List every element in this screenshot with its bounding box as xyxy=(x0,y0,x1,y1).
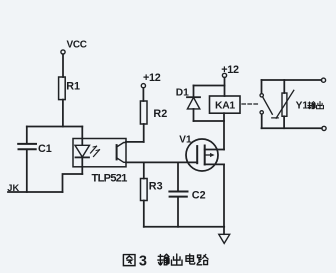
wire contact top lead xyxy=(261,80,263,94)
wire output bottom xyxy=(262,127,322,129)
wire C1 top lead xyxy=(26,127,28,144)
wire D1 top branch xyxy=(194,85,225,87)
wire emitter to gate xyxy=(126,161,197,163)
label 输出 (output) small xyxy=(308,102,315,109)
wire collector to R2 xyxy=(126,141,144,143)
svg-text:Y1: Y1 xyxy=(296,100,309,111)
wire step up xyxy=(63,174,83,192)
wire JK horizontal xyxy=(8,191,63,193)
wire R3 top lead xyxy=(143,162,145,178)
svg-text:TLP521: TLP521 xyxy=(92,173,128,185)
capacitor C1 xyxy=(18,144,36,149)
transistor V1 MOSFET xyxy=(186,139,218,171)
wire bottom horizontal xyxy=(144,226,224,228)
wire top-left horizontal xyxy=(27,126,83,128)
capacitor C2 xyxy=(169,192,187,197)
svg-text:C1: C1 xyxy=(38,143,52,155)
wire C2 bottom lead xyxy=(177,198,179,227)
wire +12 to R2 xyxy=(142,88,144,101)
wire source down xyxy=(223,164,225,234)
VCC terminal xyxy=(61,50,65,54)
wire C2 top lead xyxy=(177,162,179,190)
relay contact xyxy=(260,94,263,97)
LED light arrows xyxy=(91,146,100,156)
resistor R1 xyxy=(59,77,66,100)
wire R1 to node xyxy=(62,100,64,127)
relay coil KA1 xyxy=(210,96,241,113)
svg-text:R1: R1 xyxy=(66,80,80,92)
terminal top right xyxy=(321,78,325,82)
caption 图 3 xyxy=(123,255,135,266)
varistor RV xyxy=(282,93,287,116)
phototransistor of optocoupler xyxy=(116,145,118,159)
dashed link KA1 to contact xyxy=(242,103,260,105)
wire D1 bottom branch xyxy=(194,120,225,122)
LED of optocoupler xyxy=(75,145,90,157)
svg-text:+12: +12 xyxy=(143,72,161,84)
svg-text:3: 3 xyxy=(139,253,147,269)
wire output top xyxy=(262,79,322,81)
svg-text:KA1: KA1 xyxy=(215,100,235,111)
wire +12 to KA1 xyxy=(224,78,226,96)
resistor R3 xyxy=(141,179,148,201)
caption 输出电路 xyxy=(158,254,169,265)
V1 drain lead xyxy=(205,149,224,151)
diode D1 xyxy=(193,86,195,98)
wire drain to KA1 xyxy=(223,113,225,149)
ground xyxy=(219,234,230,243)
wire LED anode lead xyxy=(81,127,83,146)
wire VCC to R1 xyxy=(62,54,64,77)
wire contact bottom lead xyxy=(261,114,263,128)
svg-text:C2: C2 xyxy=(192,190,206,202)
wire C1 bottom lead xyxy=(26,150,28,192)
wire R2 to collector node xyxy=(143,124,145,142)
V1 source arrow xyxy=(205,154,212,156)
resistor R2 xyxy=(140,101,147,124)
op-to box U1 TLP521 xyxy=(73,139,126,167)
wire varistor bottom lead xyxy=(283,116,285,128)
wire LED cathode lead xyxy=(81,157,83,174)
svg-text:VCC: VCC xyxy=(67,40,87,51)
svg-text:R3: R3 xyxy=(149,181,163,193)
wire varistor top lead xyxy=(283,80,285,93)
V1 source lead xyxy=(205,163,224,165)
wire R3 bottom lead xyxy=(143,201,145,227)
terminal bottom right xyxy=(322,126,326,130)
svg-text:R2: R2 xyxy=(153,108,167,120)
